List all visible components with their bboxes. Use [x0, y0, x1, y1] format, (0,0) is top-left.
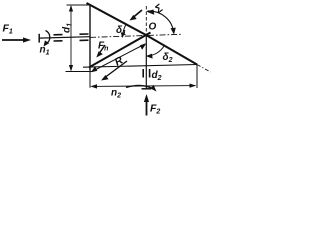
angle delta2 arc	[147, 46, 164, 56]
rotation arrow n2	[126, 85, 155, 89]
dimension d1 bottom extension	[66, 71, 93, 73]
shaft 2 end bar	[142, 88, 152, 90]
small force arrow onto cone1 generator	[133, 10, 142, 18]
bearing shaft1 left	[54, 35, 63, 41]
rotation arrow n1	[46, 31, 50, 44]
force Fn arrow upper	[100, 45, 106, 53]
shaft 1 end bar	[38, 34, 40, 43]
contact generator O-P (thick)	[89, 33, 151, 68]
bearing shaft1 right	[80, 34, 89, 40]
wire shaft 1 line	[39, 37, 90, 38]
dimension R line with arrows	[92, 44, 145, 72]
cone 1 big end	[89, 5, 91, 71]
axis shaft2 dashed above O	[145, 6, 147, 35]
dimension d2 extension right	[196, 65, 198, 89]
cone 1 top generator (thick)	[87, 3, 147, 35]
dimension d2 line with arrows	[92, 85, 196, 88]
dimension d2 extension left	[89, 71, 91, 88]
force F2 arrow	[146, 100, 148, 116]
force Fn arrow lower	[106, 61, 128, 77]
shaft 2 line below O	[145, 35, 147, 89]
angle Sigma arc	[148, 11, 174, 33]
dimension d1 line with arrows	[70, 6, 72, 71]
dimension d1 top extension	[67, 4, 91, 6]
svg-text:O: O	[149, 22, 157, 33]
angle delta1 arc	[123, 25, 126, 37]
axis shaft1 dash-dot through O	[90, 34, 181, 37]
contact line extension dash-dot lower right	[197, 65, 211, 73]
bearing shaft2	[143, 69, 149, 78]
cone 2 bottom edge	[83, 65, 197, 68]
force F1 arrow	[2, 39, 25, 41]
cone 2 right generator (thick)	[146, 35, 197, 65]
